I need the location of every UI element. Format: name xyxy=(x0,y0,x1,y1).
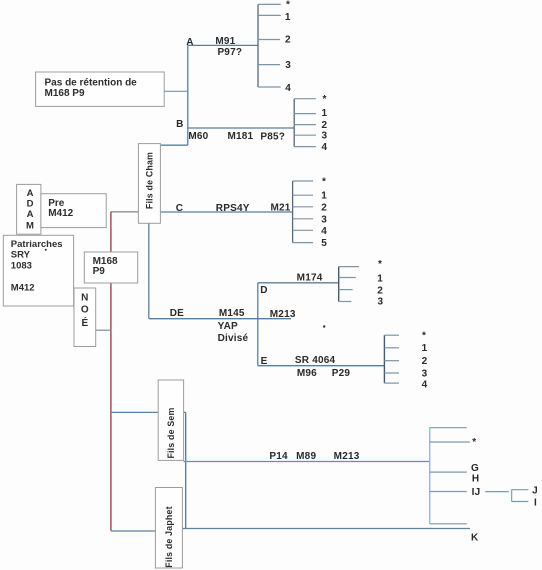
svg-text:2: 2 xyxy=(321,202,327,213)
svg-text:*: * xyxy=(472,437,476,448)
svg-text:M168 P9: M168 P9 xyxy=(45,88,85,99)
svg-text:DE: DE xyxy=(170,308,184,319)
wire: Japhet horizontal left segment xyxy=(111,530,155,532)
box: Fils de Sem xyxy=(158,380,183,460)
wire: red trunk vertical xyxy=(110,212,112,531)
svg-text:RPS4Y: RPS4Y xyxy=(216,203,250,214)
svg-text:K: K xyxy=(471,532,479,543)
svg-text:1: 1 xyxy=(422,343,428,354)
wire: Cham descender vertical xyxy=(148,223,150,318)
svg-text:B: B xyxy=(176,119,183,130)
svg-text:2: 2 xyxy=(377,286,383,297)
box: Fils de Cham xyxy=(138,144,160,224)
svg-text:IJ: IJ xyxy=(472,487,481,498)
box: Pre M412 xyxy=(41,194,106,228)
wire: NOE connector xyxy=(96,329,111,331)
bracket E vertical xyxy=(383,335,385,383)
wire: IJ connector xyxy=(485,491,509,493)
svg-text:Pas de rétention de: Pas de rétention de xyxy=(45,77,138,88)
bracket F(big) vertical xyxy=(429,428,431,524)
box: ADAM xyxy=(17,184,41,234)
bracket JI vertical xyxy=(511,490,513,502)
svg-text:5: 5 xyxy=(321,238,327,249)
svg-text:M213: M213 xyxy=(334,451,360,462)
wire: branch C horizontal xyxy=(160,211,292,213)
svg-text:3: 3 xyxy=(322,131,328,142)
svg-text:P97?: P97? xyxy=(217,47,242,58)
bracket A ticks xyxy=(258,4,281,87)
svg-text:*: * xyxy=(378,259,382,270)
svg-text:P14: P14 xyxy=(269,451,288,462)
svg-text:G: G xyxy=(471,463,479,474)
svg-text:1: 1 xyxy=(321,191,327,202)
svg-text:2: 2 xyxy=(422,356,428,367)
wire: branch DE horizontal xyxy=(149,318,291,320)
svg-text:YAP: YAP xyxy=(218,321,238,332)
svg-text:M412: M412 xyxy=(11,282,35,293)
svg-text:*: * xyxy=(422,331,426,342)
box: NOE xyxy=(74,288,96,347)
svg-text:M96: M96 xyxy=(297,368,317,379)
bracket C ticks xyxy=(293,181,313,243)
svg-text:I: I xyxy=(534,498,537,509)
leaf labels B bracket xyxy=(322,94,328,153)
svg-text:Fils de Japhet: Fils de Japhet xyxy=(164,506,174,567)
wire: connector Pas-de-retention box to trunk xyxy=(164,90,188,92)
svg-text:M412: M412 xyxy=(48,208,73,219)
svg-text:M181: M181 xyxy=(227,131,253,142)
svg-text:1: 1 xyxy=(322,108,328,119)
leaf labels M174 bracket xyxy=(377,259,383,307)
svg-text:M21: M21 xyxy=(270,202,290,213)
svg-text:P9: P9 xyxy=(93,266,106,277)
svg-text:H: H xyxy=(472,474,479,485)
box: M168 P9 xyxy=(84,252,137,283)
svg-text:M60: M60 xyxy=(188,131,208,142)
svg-text:A: A xyxy=(27,188,34,199)
wire: K horizontal line xyxy=(182,528,470,530)
svg-text:Fils de Sem: Fils de Sem xyxy=(166,407,176,458)
svg-text:C: C xyxy=(176,203,183,214)
bracket JI ticks xyxy=(512,490,529,502)
dot under Patriarches xyxy=(45,249,47,251)
wire: Sem-Japhet vertical xyxy=(185,412,187,528)
svg-text:SRY: SRY xyxy=(11,250,31,261)
wire: Sem branch horizontal xyxy=(111,411,186,413)
svg-text:M145: M145 xyxy=(219,308,245,319)
stray dot xyxy=(323,325,325,327)
svg-text:D: D xyxy=(260,285,267,296)
wire: branch A horizontal xyxy=(188,44,258,46)
svg-text:Patriarches: Patriarches xyxy=(11,239,63,250)
bracket C vertical xyxy=(292,181,294,243)
wire: branch E horizontal xyxy=(258,365,385,367)
wire: branch P14 horizontal xyxy=(184,461,430,463)
svg-text:3: 3 xyxy=(422,368,428,379)
svg-text:J: J xyxy=(532,486,538,497)
wire: branch D horizontal xyxy=(258,282,339,284)
svg-text:4: 4 xyxy=(285,83,291,94)
wire: D-E vertical xyxy=(257,283,259,366)
svg-text:N: N xyxy=(81,293,88,304)
wire: trunk vertical A-B xyxy=(187,45,189,145)
svg-text:1083: 1083 xyxy=(11,261,32,272)
svg-text:P29: P29 xyxy=(332,368,351,379)
svg-text:M: M xyxy=(26,221,34,232)
bracket E ticks xyxy=(384,335,399,383)
svg-text:Fils de Cham: Fils de Cham xyxy=(145,152,155,209)
leaf labels C bracket xyxy=(321,177,327,249)
svg-text:*: * xyxy=(286,0,290,11)
svg-text:M91: M91 xyxy=(215,36,235,47)
wire: gray elbow horizontal to Cham box xyxy=(111,211,138,213)
svg-text:M174: M174 xyxy=(297,272,323,283)
svg-text:O: O xyxy=(81,305,89,316)
svg-text:SR 4064: SR 4064 xyxy=(295,355,336,366)
svg-text:M89: M89 xyxy=(296,451,316,462)
svg-text:3: 3 xyxy=(285,60,291,71)
bracket A vertical xyxy=(257,4,259,87)
svg-text:3: 3 xyxy=(321,214,327,225)
box: Pas de retention de M168 P9 xyxy=(36,72,165,106)
svg-text:P85?: P85? xyxy=(260,131,285,142)
bracket F ticks xyxy=(430,428,470,524)
svg-text:*: * xyxy=(322,177,326,188)
svg-text:E: E xyxy=(261,356,268,367)
svg-text:4: 4 xyxy=(321,226,327,237)
bracket M174 ticks xyxy=(339,267,359,302)
svg-text:3: 3 xyxy=(378,296,384,307)
wire: connector trunk to Fils de Cham box xyxy=(161,144,188,146)
svg-text:2: 2 xyxy=(322,120,328,131)
svg-text:É: É xyxy=(81,316,88,329)
svg-text:1: 1 xyxy=(285,12,291,23)
bracket M174 vertical xyxy=(338,267,340,302)
svg-text:M213: M213 xyxy=(270,309,296,320)
svg-text:Divisé: Divisé xyxy=(218,333,249,344)
bracket B ticks xyxy=(294,99,316,147)
box: Fils de Japhet xyxy=(155,488,182,569)
svg-text:4: 4 xyxy=(422,380,428,391)
leaf labels A bracket xyxy=(285,0,291,94)
svg-text:M168: M168 xyxy=(93,256,118,267)
svg-text:*: * xyxy=(322,94,326,105)
svg-text:A: A xyxy=(186,37,193,48)
leaf labels E bracket xyxy=(422,331,428,391)
svg-text:1: 1 xyxy=(377,273,383,284)
wire: branch B horizontal xyxy=(188,127,294,129)
svg-text:A: A xyxy=(27,209,34,220)
bracket B vertical xyxy=(293,99,295,147)
svg-text:4: 4 xyxy=(322,142,328,153)
svg-text:2: 2 xyxy=(285,35,291,46)
box: Patriarches SRY 1083 M412 xyxy=(3,235,73,306)
